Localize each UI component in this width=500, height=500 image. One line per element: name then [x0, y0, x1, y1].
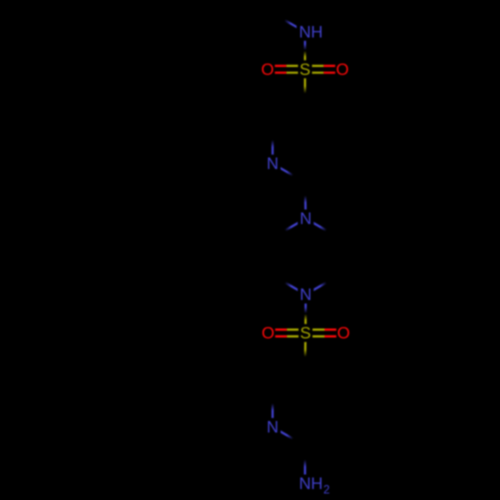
svg-text:O: O	[337, 325, 350, 343]
label gap Np1	[298, 210, 314, 228]
bond S2-C5 to ring2	[304, 333, 306, 357]
svg-text:O: O	[336, 61, 349, 79]
bond Np4-S2	[304, 295, 306, 334]
label gap NH	[297, 23, 326, 41]
bond CH3-NH	[285, 20, 305, 32]
double bond S1=O left	[268, 66, 305, 73]
svg-text:S: S	[299, 61, 310, 79]
bond Np4-CR2 piperazine	[306, 283, 327, 295]
label gap Np4	[298, 286, 314, 304]
svg-text:N: N	[267, 155, 279, 173]
bond Np1-CL1 piperazine	[285, 219, 306, 231]
bond S1-C5 to ring1	[304, 69, 306, 93]
double bond S2=O left	[268, 330, 306, 337]
svg-text:O: O	[262, 325, 275, 343]
svg-text:N: N	[300, 286, 312, 304]
label gap S1	[298, 60, 312, 78]
bond C2-NH2	[304, 460, 306, 484]
label gap O2R	[336, 325, 350, 342]
bond C2-N piperazine	[304, 196, 307, 219]
bond C6-N1 ring1	[272, 140, 274, 164]
label gap S2	[299, 324, 313, 342]
svg-text:N: N	[267, 419, 279, 437]
label gap O1L	[260, 61, 274, 78]
svg-text:N: N	[300, 210, 312, 228]
svg-text:S: S	[300, 325, 311, 343]
bond C6-N1 ring2	[272, 403, 274, 427]
double bond S1=O right	[305, 66, 342, 73]
label gap N1b	[265, 418, 281, 436]
bond CR1-Np1 piperazine	[306, 219, 327, 231]
label gap O1R	[335, 61, 349, 78]
label gap NH2	[297, 475, 332, 494]
double bond S2=O right	[306, 330, 344, 337]
bond N1-C2 ring2	[273, 427, 293, 439]
bond N1-C2 ring1	[273, 164, 293, 176]
bond CL2-Np4 piperazine	[285, 283, 306, 295]
svg-text:O: O	[261, 61, 274, 79]
svg-text:NH: NH	[299, 23, 323, 41]
bond NH-S1	[304, 32, 306, 70]
label gap O2L	[261, 325, 275, 342]
label gap N1	[265, 155, 281, 173]
